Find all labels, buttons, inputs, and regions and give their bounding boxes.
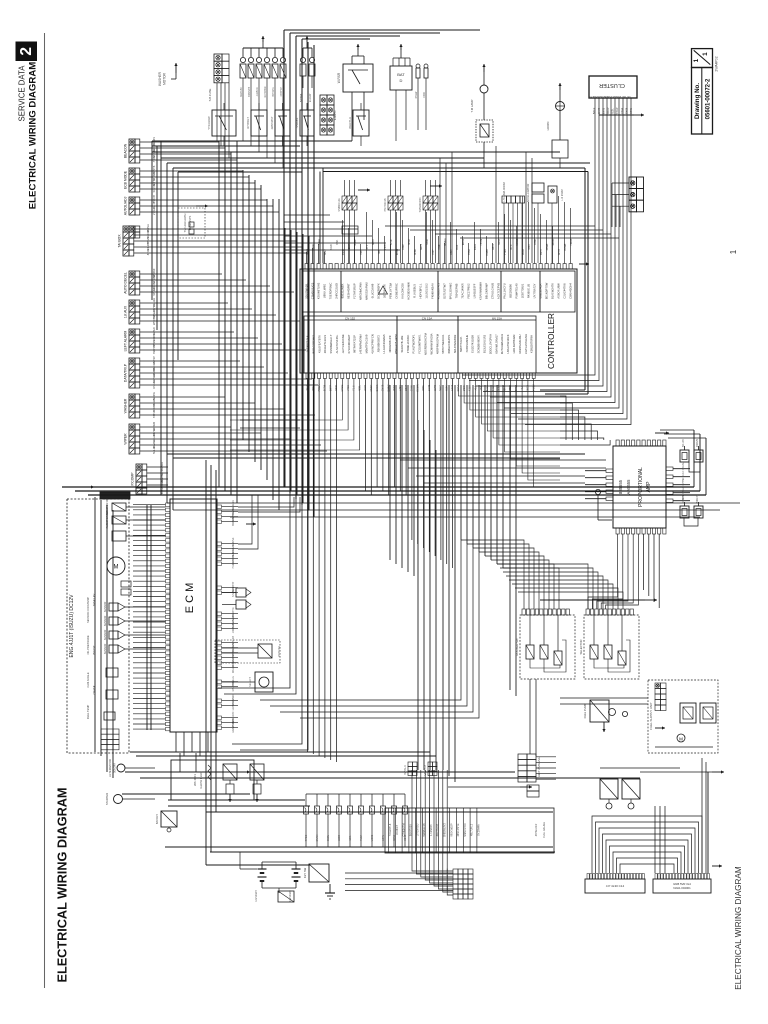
svg-text:L0H3LBSFF: L0H3LBSFF	[473, 283, 477, 298]
svg-text:STTLC: STTLC	[152, 410, 156, 418]
svg-text:9PHEC: 9PHEC	[152, 287, 156, 296]
svg-text:FYG: FYG	[589, 95, 594, 98]
svg-text:WT65: WT65	[559, 248, 561, 255]
svg-text:UFENL: UFENL	[682, 461, 685, 470]
svg-text:5E18LTB..WE: 5E18LTB..WE	[400, 335, 404, 352]
svg-text:12V100AH: 12V100AH	[255, 890, 258, 902]
svg-text:WWEA: WWEA	[444, 238, 447, 246]
svg-text:UUA8: UUA8	[522, 248, 525, 255]
svg-text:7MDP: 7MDP	[607, 107, 610, 114]
svg-text:5UL18: 5UL18	[152, 446, 156, 454]
svg-text:.UGBCR: .UGBCR	[256, 87, 259, 97]
svg-text:4LKNCPP8YCN: 4LKNCPP8YCN	[370, 334, 374, 353]
svg-text:CN 15A: CN 15A	[422, 316, 433, 320]
svg-text:46NKPNYE: 46NKPNYE	[457, 823, 460, 836]
svg-text:ALTERNATOR: ALTERNATOR	[108, 759, 112, 777]
svg-text:SRL878AEBR3: SRL878AEBR3	[453, 334, 457, 353]
svg-text:C8KH45GH4: C8KH45GH4	[569, 283, 573, 299]
svg-text:UEWE: UEWE	[517, 238, 519, 245]
svg-text:SENSOR COOLTEMP: SENSOR COOLTEMP	[86, 597, 90, 623]
svg-text:T.M LAMP: T.M LAMP	[470, 99, 474, 112]
svg-text:72FD: 72FD	[424, 92, 426, 98]
svg-text:M5M7PD.G3A9: M5M7PD.G3A9	[365, 334, 369, 353]
svg-text:P1HLTW2PDF1: P1HLTW2PDF1	[412, 334, 416, 354]
svg-text:5BTKYNE2UU1: 5BTKYNE2UU1	[441, 334, 445, 354]
svg-text:SP4C: SP4C	[409, 239, 411, 245]
svg-text:RCHCWR: RCHCWR	[264, 86, 267, 97]
svg-text:ENRN: ENRN	[316, 834, 319, 841]
svg-text:N9S2: N9S2	[499, 238, 501, 244]
svg-text:EU2D7431859: EU2D7431859	[471, 335, 475, 353]
svg-text:693231HCA: 693231HCA	[539, 283, 543, 298]
svg-text:DYLW: DYLW	[416, 91, 418, 98]
svg-text:35HCYLU: 35HCYLU	[348, 117, 352, 129]
svg-text:BAT: BAT	[397, 72, 405, 77]
svg-text:1YBYYP: 1YBYYP	[280, 87, 283, 97]
svg-text:FUEL GAUGE: FUEL GAUGE	[543, 822, 546, 838]
svg-text:688GCK9HPP1: 688GCK9HPP1	[447, 334, 451, 353]
svg-text:N6R9A651P.9: N6R9A651P.9	[388, 335, 392, 352]
svg-text:AT.1: AT.1	[366, 244, 369, 249]
svg-text:M2UU: M2UU	[553, 238, 555, 245]
svg-text:D9WB: D9WB	[565, 243, 567, 250]
svg-text:930379: 930379	[696, 438, 699, 447]
svg-text:8N8SWUY3: 8N8SWUY3	[444, 823, 447, 837]
svg-text:MWSS3APMU: MWSS3APMU	[365, 282, 369, 300]
svg-text:4UWGUTH.S: 4UWGUTH.S	[437, 283, 441, 299]
svg-text:DU4.: DU4.	[457, 244, 459, 250]
svg-text:7EAC149KR: 7EAC149KR	[461, 283, 465, 298]
svg-text:99TPAFAT2SP: 99TPAFAT2SP	[353, 335, 357, 353]
svg-text:C64P: C64P	[403, 244, 405, 250]
svg-text:KSUW6TUH3: KSUW6TUH3	[317, 282, 321, 299]
svg-text:.TRB2: .TRB2	[152, 155, 156, 163]
svg-text:3CYB0GT: 3CYB0GT	[246, 117, 250, 129]
svg-text:78GA: 78GA	[468, 249, 471, 255]
svg-text:EB.4: EB.4	[493, 244, 495, 250]
svg-text:GLOW PLUG: GLOW PLUG	[199, 772, 203, 789]
svg-text:F27HF3RUP: F27HF3RUP	[353, 283, 357, 299]
svg-text:ELREW: ELREW	[309, 93, 312, 102]
svg-text:1: 1	[693, 58, 700, 62]
svg-text:U99.K.W9G: U99.K.W9G	[323, 284, 327, 298]
svg-text:B0.1PC: B0.1PC	[682, 439, 685, 448]
svg-text:PND: PND	[593, 95, 598, 98]
svg-text:KUMANSYS: KUMANSYS	[188, 215, 192, 230]
svg-text:S61E: S61E	[427, 239, 429, 245]
svg-text:KA1C6KC08: KA1C6KC08	[401, 283, 405, 299]
svg-text:WE1WC1F: WE1WC1F	[232, 660, 235, 672]
svg-text:YY1GNDW: YY1GNDW	[207, 116, 211, 130]
svg-text:ELECTRICAL WIRING DIAGRAM: ELECTRICAL WIRING DIAGRAM	[734, 866, 743, 990]
svg-text:1030NGB: 1030NGB	[232, 622, 235, 633]
svg-text:27SL3: 27SL3	[152, 207, 156, 215]
svg-text:P5FHRC1B: P5FHRC1B	[384, 198, 387, 211]
svg-text:HGKB: HGKB	[571, 238, 573, 245]
svg-text:U9P1: U9P1	[382, 834, 385, 841]
svg-text:6N 15A: 6N 15A	[492, 316, 502, 320]
svg-text:070T: 070T	[433, 249, 435, 255]
svg-text:CLUSTER: CLUSTER	[599, 82, 625, 88]
svg-text:FET0: FET0	[541, 248, 543, 254]
svg-text:U2BB: U2BB	[338, 834, 341, 841]
svg-text:Drawing No.: Drawing No.	[694, 83, 701, 119]
svg-text:FTRMLLK441K: FTRMLLK441K	[406, 335, 410, 354]
svg-text:Y79U: Y79U	[505, 249, 507, 255]
svg-text:ACCELERATOR: ACCELERATOR	[527, 184, 530, 203]
svg-text:LH LUMA ROOM: LH LUMA ROOM	[503, 182, 506, 201]
svg-text:6WPPP: 6WPPP	[152, 344, 156, 353]
svg-text:CAM ANGLE: CAM ANGLE	[86, 672, 90, 687]
svg-text:FUF.C: FUF.C	[682, 470, 685, 477]
svg-text:S5F0: S5F0	[529, 244, 531, 250]
svg-text:WWG4CB.4RS0: WWG4CB.4RS0	[394, 334, 398, 354]
svg-text:0LUCD.6H9: 0LUCD.6H9	[371, 283, 375, 298]
svg-text:A641: A641	[450, 249, 453, 255]
svg-text:KGLU: KGLU	[475, 244, 477, 251]
svg-text:.6F264.H: .6F264.H	[396, 825, 399, 835]
svg-text:UCB5: UCB5	[371, 834, 374, 841]
svg-text:L4ERNPMD7MA: L4ERNPMD7MA	[359, 334, 363, 354]
svg-text:CONTROLLER: CONTROLLER	[547, 313, 556, 369]
svg-text:.8TCF: .8TCF	[146, 248, 150, 256]
svg-text:B9LGNFAMP: B9LGNFAMP	[485, 283, 489, 299]
svg-text:PALL1HCYU: PALL1HCYU	[503, 283, 507, 299]
svg-text:B7YDH1: B7YDH1	[272, 87, 275, 97]
svg-text:ELECTRICAL WIRING DIAGRAM: ELECTRICAL WIRING DIAGRAM	[56, 787, 70, 982]
svg-text:P635: P635	[385, 244, 387, 250]
svg-text:BAYNLD: BAYNLD	[404, 765, 407, 775]
svg-text:H2R.NHTB3M3: H2R.NHTB3M3	[512, 334, 516, 353]
svg-text:48RPR4UGPKM: 48RPR4UGPKM	[435, 333, 439, 354]
svg-text:AEY9: AEY9	[420, 243, 423, 250]
svg-text:DATA/TRI.P: DATA/TRI.P	[124, 363, 128, 382]
svg-text:99DKW18P: 99DKW18P	[450, 823, 453, 836]
svg-text:NS6.: NS6.	[337, 239, 339, 244]
svg-text:ROCKER SW: ROCKER SW	[515, 638, 519, 656]
svg-text:1EB7739U1: 1EB7739U1	[521, 283, 525, 298]
svg-text:DN0AC: DN0AC	[152, 380, 156, 389]
svg-text:L1.EHKRUMG5: L1.EHKRUMG5	[382, 334, 386, 353]
svg-text:WASHER: WASHER	[158, 71, 162, 86]
svg-text:WIPER: WIPER	[124, 433, 128, 445]
svg-text:HORN: HORN	[546, 122, 550, 131]
svg-text:TAI BOX: TAI BOX	[118, 234, 122, 248]
svg-text:H5YM: H5YM	[481, 239, 483, 245]
svg-text:MRGNMC4NA: MRGNMC4NA	[359, 282, 363, 300]
svg-text:E C M: E C M	[184, 583, 196, 614]
svg-text:C6SU: C6SU	[327, 835, 330, 842]
svg-text:S.B.FUSE: S.B.FUSE	[208, 88, 212, 101]
svg-text:D271R2TW7: D271R2TW7	[443, 283, 447, 299]
svg-text:NM5CSHF0: NM5CSHF0	[464, 823, 467, 837]
svg-text:4M54: 4M54	[360, 834, 363, 841]
svg-text:FUEL SUPPLY UNIT: FUEL SUPPLY UNIT	[649, 702, 653, 730]
svg-text:AS6C4.U9W: AS6C4.U9W	[557, 283, 561, 299]
svg-text:SERVICE DATA: SERVICE DATA	[18, 65, 27, 122]
svg-text:SC7CK: SC7CK	[152, 184, 156, 193]
svg-text:057: 057	[626, 95, 631, 98]
svg-text:FBC27P8U2: FBC27P8U2	[467, 283, 471, 299]
svg-text:H16D1SB: H16D1SB	[232, 557, 235, 568]
svg-text:R..K0EBU3: R..K0EBU3	[413, 284, 417, 298]
svg-text:LBAGT921RCK: LBAGT921RCK	[506, 334, 510, 353]
svg-text:9HTUHWHAR31: 9HTUHWHAR31	[500, 333, 504, 354]
svg-text:KG30: KG30	[331, 243, 333, 250]
svg-text:1RL: 1RL	[612, 95, 617, 98]
svg-text:SCW5BA6EHY.: SCW5BA6EHY.	[477, 334, 481, 353]
svg-text:.R5K8BKDB72: .R5K8BKDB72	[376, 335, 380, 353]
svg-text:FCGU96TWHS.: FCGU96TWHS.	[418, 334, 422, 354]
svg-text:M5SREWGHCFM: M5SREWGHCFM	[424, 332, 428, 354]
svg-text:2NS: 2NS	[616, 95, 621, 98]
svg-text:HDFKBFG.L: HDFKBFG.L	[419, 283, 423, 299]
svg-text:1: 1	[729, 249, 738, 254]
svg-text:1LU5GLSU2: 1LU5GLSU2	[425, 283, 429, 299]
svg-text:ALSC7USKPG.: ALSC7USKPG.	[335, 334, 339, 353]
svg-text:SS5D9WGLC.T: SS5D9WGLC.T	[329, 334, 333, 353]
svg-text:1.K2M9PF: 1.K2M9PF	[430, 824, 433, 836]
svg-text:OIL PRESSURE: OIL PRESSURE	[86, 635, 90, 654]
svg-text:2B2: 2B2	[603, 95, 608, 98]
svg-text:B13LE1KU1R3: B13LE1KU1R3	[483, 334, 487, 353]
svg-text:A0T: A0T	[621, 95, 626, 98]
svg-text:BEACON: BEACON	[124, 143, 128, 158]
svg-text:RN2PGA6L48U: RN2PGA6L48U	[518, 334, 522, 353]
svg-text:WASHER: WASHER	[124, 398, 128, 413]
svg-text:LEFT ALARM: LEFT ALARM	[124, 330, 128, 351]
svg-text:SELECT: SELECT	[249, 677, 252, 687]
svg-text:7SERDPSMC: 7SERDPSMC	[329, 283, 333, 300]
svg-text:50A 24V: 50A 24V	[114, 763, 117, 773]
svg-text:HMNBGFPF: HMNBGFPF	[423, 823, 426, 838]
svg-text:.7U8SSH6DHE: .7U8SSH6DHE	[465, 335, 469, 354]
svg-text:AUTOL/ADJ: AUTOL/ADJ	[124, 196, 128, 215]
svg-text:D: D	[400, 78, 403, 83]
svg-text:S.NB9LH: S.NB9LH	[232, 587, 235, 597]
svg-text:GT9F: GT9F	[391, 238, 393, 244]
svg-text:AUTO DECEL: AUTO DECEL	[124, 272, 128, 294]
svg-text:05601-00072-2: 05601-00072-2	[706, 78, 712, 119]
svg-text:KEY SW: KEY SW	[303, 867, 307, 878]
svg-text:2HRCG2L6D: 2HRCG2L6D	[335, 283, 339, 299]
svg-text:BE1NDP7SW: BE1NDP7SW	[545, 282, 549, 299]
svg-text:EABWE16: EABWE16	[232, 721, 235, 733]
svg-text:1: 1	[702, 52, 709, 56]
svg-text:85E293690: 85E293690	[509, 284, 513, 298]
svg-text:1GP4PGA: 1GP4PGA	[232, 699, 235, 711]
svg-text:UY776A72Y: UY776A72Y	[533, 283, 537, 298]
svg-text:1st AUX: 1st AUX	[124, 305, 128, 318]
svg-text:9ESH4DP9T: 9ESH4DP9T	[347, 283, 351, 299]
svg-text:79341EPNB: 79341EPNB	[455, 283, 459, 298]
svg-text:PEW.UYT3M: PEW.UYT3M	[389, 282, 393, 299]
svg-text:CN 152: CN 152	[345, 316, 356, 320]
svg-text:M: M	[114, 565, 119, 571]
svg-text:U.TGYK0U: U.TGYK0U	[416, 824, 419, 837]
svg-text:1EC.: 1EC.	[349, 835, 352, 841]
svg-text:MEP1BC: MEP1BC	[240, 87, 243, 97]
svg-text:M: M	[679, 737, 683, 742]
svg-text:7DGE9TL6: 7DGE9TL6	[389, 823, 392, 836]
svg-text:FUEL TEMP: FUEL TEMP	[86, 705, 90, 720]
svg-text:2WR5MSY: 2WR5MSY	[270, 116, 274, 129]
svg-text:4BHEL01R: 4BHEL01R	[535, 824, 538, 837]
svg-text:ECB MODE: ECB MODE	[124, 170, 128, 189]
svg-text:2WA4P02: 2WA4P02	[715, 56, 719, 71]
svg-text:W6 4001: W6 4001	[193, 774, 197, 786]
svg-text:P.COMP: P.COMP	[131, 472, 135, 486]
svg-text:LIGHT: LIGHT	[333, 110, 337, 120]
svg-text:HCK8DSAMW: HCK8DSAMW	[407, 282, 411, 300]
svg-text:95E312NEK: 95E312NEK	[341, 283, 345, 298]
svg-text:THEFT ANTENNA: THEFT ANTENNA	[537, 757, 541, 779]
svg-text:TPDC: TPDC	[305, 834, 308, 841]
svg-text:ACK7CEPYB: ACK7CEPYB	[497, 283, 501, 299]
svg-text:C2UC44TK6: C2UC44TK6	[563, 283, 567, 299]
svg-text:GMGT: GMGT	[355, 238, 357, 245]
svg-text:N61C: N61C	[373, 239, 375, 245]
svg-text:5DDCLUYGPKH: 5DDCLUYGPKH	[488, 334, 492, 354]
svg-text:815L: 815L	[612, 108, 615, 114]
svg-text:596TYTACP..: 596TYTACP..	[459, 336, 463, 352]
svg-text:4FFE: 4FFE	[415, 249, 417, 255]
svg-text:.GCYCE4UKNE: .GCYCE4UKNE	[341, 334, 345, 353]
svg-text:2D3G2TL3ULS: 2D3G2TL3ULS	[323, 335, 327, 354]
svg-text:A6KT: A6KT	[324, 249, 327, 255]
svg-text:L.R 2V/3V: L.R 2V/3V	[561, 189, 564, 201]
svg-text:FUEL PUMP: FUEL PUMP	[583, 703, 587, 718]
svg-text:CKB63FR9C: CKB63FR9C	[395, 283, 399, 299]
svg-text:B1A1W2HTK: B1A1W2HTK	[551, 283, 555, 299]
svg-text:FKN6AKBAA: FKN6AKBAA	[431, 283, 435, 299]
svg-text:ER8G: ER8G	[463, 239, 465, 245]
svg-text:KSAKNMWMH: KSAKNMWMH	[479, 282, 483, 300]
svg-text:WCMHNK6YG9A: WCMHNK6YG9A	[429, 333, 433, 354]
svg-text:P5M4TEL40: P5M4TEL40	[515, 283, 519, 298]
svg-text:4BL7UKL1: 4BL7UKL1	[471, 823, 474, 836]
svg-text:A56E: A56E	[534, 239, 537, 245]
svg-text:ENG.4JJ1T (ISUZU) DC12V: ENG.4JJ1T (ISUZU) DC12V	[69, 594, 75, 658]
svg-text:9GB: 9GB	[598, 95, 603, 98]
svg-text:S7F6: S7F6	[630, 107, 633, 113]
svg-text:7WDNYB: 7WDNYB	[248, 86, 251, 97]
svg-text:KWR7: KWR7	[487, 248, 489, 255]
svg-text:DPT56: DPT56	[682, 478, 685, 486]
svg-text:8Y.29M4A: 8Y.29M4A	[478, 824, 481, 836]
svg-text:WN0YM: WN0YM	[152, 315, 156, 325]
svg-text:W.RSR: W.RSR	[337, 72, 341, 83]
svg-text:CGTGL57GHSH: CGTGL57GHSH	[524, 334, 528, 354]
svg-text:MOTOR: MOTOR	[163, 72, 167, 85]
svg-text:4DWB: 4DWB	[547, 243, 549, 250]
svg-text:TVC AUX AUTH: TVC AUX AUTH	[183, 214, 187, 233]
svg-text:.PCY0.N4: .PCY0.N4	[278, 646, 281, 658]
svg-text:ELECTRICAL WIRING DIAGRAM: ELECTRICAL WIRING DIAGRAM	[28, 62, 39, 209]
svg-text:0SW: 0SW	[606, 95, 612, 98]
svg-text:43L0YEATBTK: 43L0YEATBTK	[317, 335, 321, 353]
svg-text:9PUL3GHMG: 9PUL3GHMG	[449, 283, 453, 300]
svg-text:B011GC0EMK1: B011GC0EMK1	[311, 334, 315, 353]
svg-text:SN660CUG: SN660CUG	[338, 198, 341, 211]
svg-text:R7.9: R7.9	[511, 244, 513, 250]
svg-text:TWWMFR9D: TWWMFR9D	[419, 197, 422, 212]
svg-text:R436UE.U5: R436UE.U5	[527, 283, 531, 298]
svg-text:N2H1.004001: N2H1.004001	[673, 886, 691, 890]
svg-text:60AAWLSKM17: 60AAWLSKM17	[494, 334, 498, 354]
svg-text:STARTER: STARTER	[105, 793, 109, 805]
svg-text:BAT.RLY: BAT.RLY	[155, 814, 159, 824]
svg-text:CTKU1GHU5: CTKU1GHU5	[491, 282, 495, 299]
svg-text:K59LD0T0F9H: K59LD0T0F9H	[530, 335, 534, 353]
svg-text:071UK9D3NHT: 071UK9D3NHT	[347, 334, 351, 353]
svg-text:SELECTOR: SELECTOR	[579, 639, 583, 654]
svg-text:C7N05KFM: C7N05KFM	[403, 823, 406, 836]
svg-text:2: 2	[18, 47, 35, 56]
svg-text:4 P 4L30 C14: 4 P 4L30 C14	[606, 884, 625, 888]
